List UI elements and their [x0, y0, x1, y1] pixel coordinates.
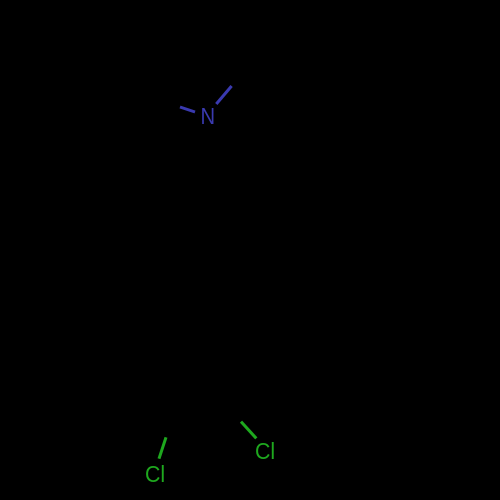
svg-text:Cl: Cl: [145, 461, 165, 487]
svg-text:N: N: [201, 103, 216, 129]
svg-text:Cl: Cl: [255, 438, 275, 464]
